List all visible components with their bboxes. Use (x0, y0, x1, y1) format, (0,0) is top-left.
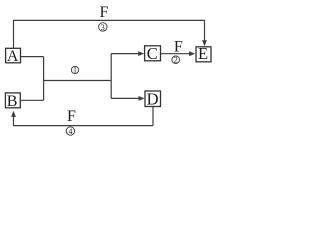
svg-text:B: B (7, 93, 18, 110)
svg-text:F: F (174, 38, 183, 55)
label (3) circled (99, 23, 107, 32)
svg-text:4: 4 (68, 127, 72, 136)
svg-text:C: C (147, 44, 158, 63)
box D (145, 90, 161, 109)
wire D down (152, 107, 154, 126)
arrowhead into B bottom (11, 111, 16, 117)
arrowhead into C (138, 51, 144, 56)
label (4) circled (66, 127, 74, 136)
wire into D (111, 97, 140, 99)
svg-text:3: 3 (101, 23, 105, 32)
arrowhead into E left (189, 51, 195, 56)
wire middle line (1) (44, 80, 112, 82)
label (2) circled (172, 56, 180, 65)
svg-text:A: A (7, 48, 19, 65)
svg-text:2: 2 (174, 56, 178, 65)
arrowhead into D (139, 96, 145, 101)
box C (145, 44, 161, 63)
wire top feedback line (14, 20, 205, 48)
svg-text:F: F (67, 108, 76, 125)
wire into C (111, 53, 139, 55)
box E (196, 44, 211, 63)
wire B output (20, 99, 43, 101)
svg-text:1: 1 (73, 66, 77, 75)
wire A output (21, 56, 44, 58)
svg-text:F: F (100, 4, 109, 21)
svg-text:E: E (198, 44, 208, 63)
wire C to E (161, 53, 191, 55)
svg-text:D: D (147, 90, 159, 109)
box B (5, 93, 20, 110)
label (1) circled (71, 66, 78, 75)
arrowhead into E top (202, 40, 207, 46)
wire branch bus right (110, 54, 112, 99)
box A (6, 48, 21, 65)
wire bottom feedback line (14, 116, 154, 126)
wire summing bus left (43, 57, 45, 101)
